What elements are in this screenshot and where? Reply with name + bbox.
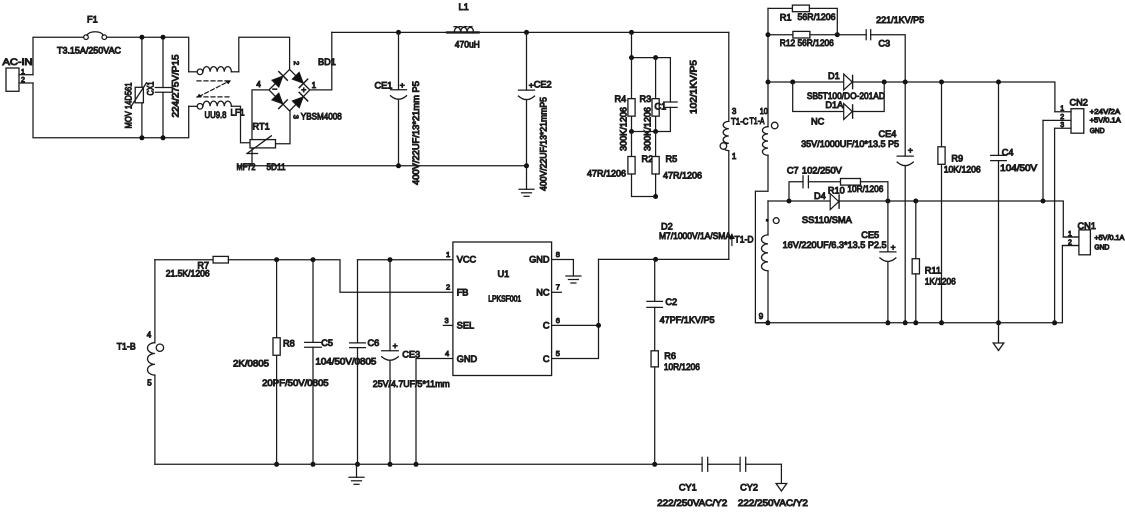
svg-text:L1: L1 [459,2,469,12]
svg-text:300K/1206: 300K/1206 [643,107,653,151]
svg-text:35V/1000UF/10*13.5 P5: 35V/1000UF/10*13.5 P5 [801,139,899,149]
svg-text:5: 5 [147,379,152,388]
svg-text:LF1: LF1 [231,108,245,118]
svg-text:SS110/SMA: SS110/SMA [802,215,853,225]
svg-text:GND: GND [457,354,478,364]
capacitor C4 104/50V [991,82,1038,325]
svg-text:10R/1206: 10R/1206 [664,362,700,372]
svg-text:2: 2 [292,61,301,65]
svg-text:FB: FB [457,287,469,297]
svg-text:C4: C4 [1002,147,1014,157]
resistor R3 300K/1206 [640,58,660,151]
diode D4 SS110/SMA [802,191,853,225]
svg-text:+: + [891,242,896,252]
diode D1 SB5T100/DO-201AD [807,71,885,101]
svg-text:25V/4.7UF/5*11mm: 25V/4.7UF/5*11mm [373,379,450,389]
svg-text:47PF/1KV/P5: 47PF/1KV/P5 [660,315,715,325]
svg-text:102/1KV/P5: 102/1KV/P5 [689,60,699,114]
svg-text:3: 3 [291,115,300,119]
wire T1-D net (D2 anode to primary pin1) [599,257,729,262]
thermistor RT1 MF72 5D11 [237,90,291,172]
svg-text:+5V/0.1A: +5V/0.1A [1090,118,1121,125]
ground arrow secondary [993,323,1004,351]
svg-text:+: + [400,80,405,90]
svg-text:222/250VAC/Y2: 222/250VAC/Y2 [738,498,808,508]
svg-text:21.5K/1206: 21.5K/1206 [166,269,210,279]
svg-text:2: 2 [1068,239,1072,246]
svg-text:D4: D4 [814,191,826,201]
svg-text:1: 1 [312,81,317,90]
svg-text:NC: NC [811,116,825,126]
svg-text:1: 1 [21,69,25,76]
svg-text:R3: R3 [640,94,652,104]
connector CN1 [1062,221,1124,255]
resistor R6 10R/1206 [651,351,700,467]
svg-text:MF72: MF72 [237,162,256,172]
svg-text:221/1KV/P5: 221/1KV/P5 [876,15,924,25]
svg-text:AC-IN: AC-IN [3,57,33,67]
capacitor CE5 16V/220UF [783,201,896,325]
svg-text:2: 2 [446,283,450,292]
svg-text:C7: C7 [787,166,799,176]
svg-text:C: C [543,321,550,331]
svg-text:20PF/50V/0805: 20PF/50V/0805 [262,378,329,388]
svg-text:GND: GND [1094,244,1109,251]
capacitor CY2 222/250VAC/Y2 [738,457,808,508]
svg-text:+: + [908,145,913,155]
svg-text:47R/1206: 47R/1206 [663,171,702,181]
wire snubber mid [629,129,658,134]
wire bridge + to DC rail [310,32,332,90]
transformer T1-B aux winding [117,260,164,465]
resistor R8 2K/0805 [233,260,295,467]
capacitor C2 47PF/1KV/P5 [647,259,715,350]
svg-text:1: 1 [1060,106,1064,113]
capacitor C1 102/1KV/P5 [655,58,699,132]
svg-text:224/275V/P15: 224/275V/P15 [171,54,181,117]
svg-text:CE1: CE1 [375,81,393,91]
resistor R2 47R/1206 [587,132,656,197]
svg-text:MOV 14D561: MOV 14D561 [124,83,134,129]
svg-text:CE5: CE5 [861,230,879,240]
svg-text:4: 4 [147,331,152,340]
wire AC line bottom [33,83,189,138]
svg-text:C2: C2 [665,297,677,307]
svg-text:BD1: BD1 [318,57,336,67]
svg-text:1: 1 [1068,231,1072,238]
svg-text:5D11: 5D11 [267,162,286,172]
svg-text:R11: R11 [925,265,941,275]
wire U1 pin8 to ground [552,260,574,277]
inductor L1 470uH [447,2,480,50]
svg-text:104/50V/0805: 104/50V/0805 [315,356,376,366]
svg-text:SB5T100/DO-201AD: SB5T100/DO-201AD [807,91,885,101]
svg-text:102/250V: 102/250V [802,166,843,176]
svg-text:10R/1206: 10R/1206 [847,184,883,194]
svg-text:4: 4 [256,80,261,89]
svg-text:16V/220UF/6.3*13.5 P2.5: 16V/220UF/6.3*13.5 P2.5 [783,240,887,250]
svg-text:T1-C: T1-C [731,116,749,126]
svg-text:−: − [272,84,277,94]
label T1-D arrow [729,233,754,246]
ground CE2 [519,166,534,197]
svg-text:+: + [393,341,398,351]
svg-text:RT1: RT1 [253,122,270,132]
svg-text:CE2: CE2 [534,80,552,90]
diode D2 M7/1000V/1A/SMA [659,222,732,242]
svg-text:47R/1206: 47R/1206 [587,169,626,179]
svg-text:R6: R6 [664,351,676,361]
svg-text:+: + [301,84,306,94]
capacitor CE3 25V/4.7UF [373,260,450,467]
wire primary GND rail [155,463,782,465]
capacitor CE2 [519,32,552,191]
svg-text:7: 7 [556,283,560,292]
wire DC positive rail [332,30,729,35]
svg-text:470uH: 470uH [455,40,480,50]
connector AC-IN [3,57,34,91]
svg-text:56R/1206: 56R/1206 [798,12,836,22]
svg-text:C3: C3 [878,39,890,49]
ground U1 pin8 [566,276,581,283]
svg-text:YBSM4008: YBSM4008 [301,112,342,122]
svg-text:4: 4 [445,349,449,358]
svg-text:2K/0805: 2K/0805 [233,358,269,368]
svg-text:6: 6 [556,316,560,325]
svg-text:2: 2 [21,77,25,84]
svg-text:9: 9 [759,312,764,321]
resistor R11 1K/1206 [912,201,956,325]
svg-text:D2: D2 [661,222,673,232]
varistor MOV 14D561 [124,35,147,141]
svg-text:U1: U1 [498,269,510,279]
svg-text:R5: R5 [666,154,678,164]
IC U1 LPKSF001 [443,242,561,376]
wire CN2 pin3 to GND rail [1054,128,1056,323]
svg-text:D1: D1 [828,71,840,81]
svg-text:+5V/0.1A: +5V/0.1A [1094,235,1124,242]
svg-text:1: 1 [732,152,737,161]
capacitor CE1 [375,32,422,185]
svg-text:VCC: VCC [457,255,477,265]
svg-text:R8: R8 [283,339,295,349]
connector CN2 [1043,98,1121,135]
svg-text:T3.15A/250VAC: T3.15A/250VAC [57,46,121,56]
svg-text:10: 10 [760,107,768,116]
resistor R12 56R/1206 [768,31,840,48]
wire 24V rail [768,80,1055,112]
transformer T1 primary T1-C [720,32,765,259]
svg-text:GND: GND [529,255,550,265]
capacitor CX1 [146,35,181,141]
svg-text:LPKSF001: LPKSF001 [488,294,521,304]
svg-text:R12 56R/1206: R12 56R/1206 [780,38,834,48]
wire VCC line [358,257,453,262]
svg-text:D1A: D1A [825,100,844,110]
resistor R7 21.5K/1206 (FB line) [155,256,453,292]
wire U1 pins 5,6 to C node [552,259,601,358]
svg-text:CY2: CY2 [740,483,758,493]
svg-text:R4: R4 [615,94,627,104]
wire snubber top [629,32,670,60]
svg-text:T1-B: T1-B [117,341,136,351]
svg-text:UU9.8: UU9.8 [205,110,227,120]
capacitor C7 102/250V [787,166,843,202]
svg-text:104/50V: 104/50V [1000,163,1038,173]
capacitor C3 221/1KV/P5 [837,15,924,82]
wire secondary GND rail [755,246,1079,326]
svg-text:SEL: SEL [457,321,474,331]
wire R1 top branch [766,8,771,84]
svg-text:M7/1000V/1A/SMA: M7/1000V/1A/SMA [659,231,732,241]
capacitor CY1 222/250VAC/Y2 [657,457,727,508]
capacitor C6 104/50V/0805 [315,260,379,467]
resistor R9 10K/1206 [938,82,981,325]
capacitor CE4 35V/1000UF [801,82,913,325]
svg-text:400V/22UF/13*21mmP5: 400V/22UF/13*21mmP5 [539,97,549,191]
svg-text:+24V/2A: +24V/2A [1090,109,1121,116]
earth arrow CY2 [776,464,787,491]
svg-text:CN1: CN1 [1078,221,1096,231]
svg-text:GND: GND [1090,128,1105,135]
svg-text:300K/1206: 300K/1206 [619,107,629,151]
svg-text:CX1: CX1 [146,82,156,96]
svg-text:R1: R1 [780,12,792,22]
svg-text:3: 3 [1060,122,1064,129]
resistor R4 300K/1206 [615,58,636,151]
svg-text:3: 3 [445,316,449,325]
fuse F1 [57,15,121,56]
wire U1 pin4 GND to rail [414,359,453,467]
svg-text:3: 3 [732,107,737,116]
svg-text:C: C [543,354,550,364]
diode D1A (NC) [793,82,885,126]
svg-text:CN2: CN2 [1070,98,1088,108]
wire CN2 pin2 to 5V rail [1042,120,1044,201]
resistor R1 56R/1206 [768,5,837,35]
svg-text:10K/1206: 10K/1206 [944,164,981,174]
transformer T1 secondary B (5V) [762,201,780,325]
svg-text:2: 2 [1060,114,1064,121]
svg-text:F1: F1 [87,15,98,25]
svg-text:NC: NC [536,287,550,297]
resistor R10 10R/1206 [828,179,888,202]
wire LF1 to bridge AC1 [239,37,290,72]
svg-text:C6: C6 [368,338,380,348]
svg-text:5: 5 [556,349,560,358]
resistor R5 47R/1206 [652,132,702,200]
capacitor C5 20PF/50V/0805 [262,260,333,467]
transformer T1 secondary A (24V) [755,82,778,323]
svg-text:222/250VAC/Y2: 222/250VAC/Y2 [657,498,727,508]
svg-text:T1-A: T1-A [750,116,766,126]
svg-text:T1-D: T1-D [735,235,754,245]
svg-text:C1: C1 [655,102,667,112]
wire DC negative rail [238,165,527,167]
common-mode choke LF1 UU9.8 [189,67,250,143]
svg-text:CE4: CE4 [879,129,897,139]
svg-text:1K/1206: 1K/1206 [925,276,956,286]
wire 5V rail (D4 cathode net) [768,199,1079,238]
svg-text:8: 8 [556,250,560,259]
svg-text:400V/22UF/13*21mm P5: 400V/22UF/13*21mm P5 [411,81,421,185]
svg-text:R9: R9 [951,153,963,163]
svg-text:1: 1 [446,250,450,259]
bridge rectifier BD1 YBSM4008 [256,57,341,122]
svg-text:C5: C5 [321,338,333,348]
ground primary (IEC) [349,464,364,484]
wire AC line top [33,37,189,74]
svg-text:CY1: CY1 [679,483,697,493]
